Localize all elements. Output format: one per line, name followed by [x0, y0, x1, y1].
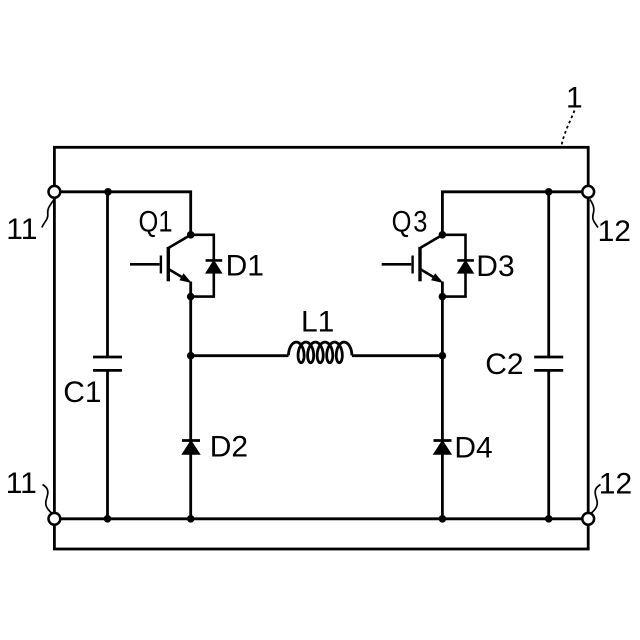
diode D2 (lower left) — [182, 441, 200, 455]
Q1 gate bar — [160, 256, 162, 274]
lead squiggle for terminal 12 top-right — [590, 200, 598, 228]
junction node: Q1 collector / D1 top — [187, 231, 195, 239]
svg-text:L1: L1 — [301, 306, 334, 339]
D2 cathode bar — [182, 439, 200, 442]
svg-text:C1: C1 — [63, 376, 101, 409]
svg-text:Q1: Q1 — [139, 204, 173, 237]
Q1 body bar — [167, 247, 170, 281]
terminal 12 top-right — [582, 186, 594, 198]
D1 cathode bar — [206, 259, 223, 262]
svg-text:C2: C2 — [485, 348, 523, 381]
junction node: Q3 collector / D3 top — [439, 231, 447, 239]
wire: right branch Q3 emitter down through D4 to bottom rail — [441, 297, 444, 519]
svg-text:12: 12 — [598, 215, 631, 248]
D3 cathode bar — [457, 259, 474, 262]
wire: top-right rail from terminal to Q3 collector drop — [442, 192, 581, 235]
svg-text:D1: D1 — [226, 249, 264, 282]
Q3 body bar — [418, 247, 421, 281]
lead squiggle for terminal 12 bottom-right — [591, 485, 600, 514]
Q3 collector diagonal — [421, 235, 443, 248]
junction node: D4 bottom — [439, 515, 447, 523]
junction node: C1 bottom — [104, 515, 112, 523]
svg-text:11: 11 — [6, 213, 37, 246]
D3 triangle — [458, 261, 473, 273]
lead squiggle for terminal 11 bottom-left — [43, 485, 52, 514]
diode D1 (freewheel across Q1) — [191, 235, 223, 297]
terminal 11 top-left — [49, 186, 61, 198]
svg-text:12: 12 — [599, 468, 632, 501]
junction node: D2 bottom — [187, 515, 195, 523]
enclosure box 1 — [54, 147, 588, 549]
Q1 gate lead — [130, 263, 160, 266]
wire: C1 branch vertical — [106, 192, 109, 519]
D4 cathode bar — [434, 439, 452, 442]
junction node: C2 bottom — [545, 515, 553, 523]
wire: bottom rail — [61, 517, 582, 520]
Q3 emitter diagonal — [421, 269, 441, 281]
Q1 emitter diagonal — [169, 269, 189, 281]
capacitor C1 — [93, 357, 122, 370]
diode D4 (lower right) — [434, 441, 452, 455]
capacitor C2 — [534, 357, 563, 370]
junction node: L1 left — [187, 352, 195, 360]
Q3 emitter arrowhead — [432, 274, 442, 282]
junction node: C1 top — [104, 188, 112, 196]
terminal 11 bottom-left — [49, 513, 61, 525]
terminal 12 bottom-right — [582, 513, 594, 525]
svg-text:1: 1 — [566, 82, 583, 115]
svg-text:Q3: Q3 — [392, 205, 430, 238]
Q3 gate lead — [382, 263, 412, 266]
junction node: Q3 emitter / D3 bottom — [439, 293, 447, 301]
svg-text:11: 11 — [6, 467, 37, 500]
D4 triangle — [434, 441, 451, 454]
svg-text:D4: D4 — [454, 432, 492, 465]
lead squiggle for terminal 11 top-left — [42, 200, 54, 228]
wire: L1 horizontal left segment — [191, 354, 289, 357]
Q1 emitter vertical stub — [189, 282, 192, 297]
D3 top stub — [442, 235, 465, 261]
Q3 emitter vertical stub — [441, 282, 444, 297]
transistor Q3 (IGBT) — [382, 235, 443, 297]
junction node: C2 top — [545, 188, 553, 196]
Q1 collector diagonal — [169, 235, 191, 248]
diode D3 (freewheel across Q3) — [442, 235, 474, 297]
svg-text:D2: D2 — [210, 430, 248, 463]
wire: left branch Q1 emitter down through D2 to bottom rail — [189, 297, 192, 519]
D3 bottom stub — [442, 273, 465, 297]
D1 bottom stub — [191, 273, 214, 297]
wire: C2 branch vertical — [547, 192, 550, 519]
junction node: L1 right — [439, 352, 447, 360]
Q3 gate bar — [411, 256, 413, 274]
leader line (dashed) from label 1 to box — [561, 111, 574, 147]
D1 top stub — [191, 235, 214, 261]
D1 triangle — [206, 261, 221, 273]
transistor Q1 (IGBT) — [130, 235, 191, 297]
Q1 emitter arrowhead — [180, 274, 190, 282]
svg-text:D3: D3 — [476, 250, 514, 283]
wire: top-left rail from terminal to Q1 collector drop — [61, 192, 191, 235]
junction node: Q1 emitter / D1 bottom — [187, 293, 195, 301]
D2 triangle — [183, 441, 200, 454]
inductor L1 coil — [289, 342, 352, 363]
wire: L1 horizontal right segment — [352, 354, 443, 357]
